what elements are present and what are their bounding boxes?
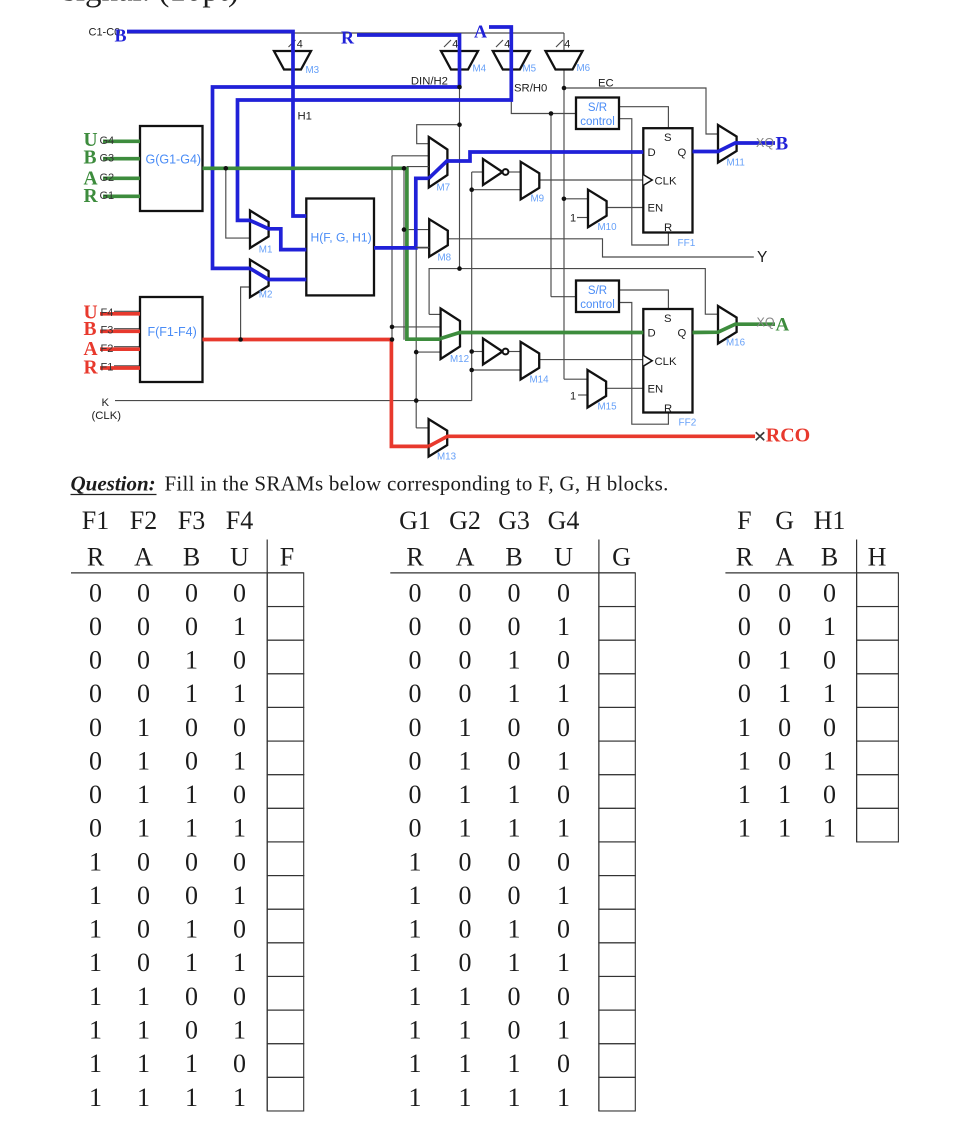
svg-text:0: 0	[233, 847, 246, 876]
svg-text:1: 1	[508, 780, 521, 809]
svg-text:0: 0	[459, 948, 472, 977]
svg-text:1: 1	[137, 1049, 150, 1078]
svg-text:M8: M8	[438, 253, 452, 264]
svg-text:G4: G4	[548, 506, 580, 535]
svg-text:0: 0	[185, 578, 198, 607]
svg-text:F1: F1	[101, 361, 114, 373]
svg-text:0: 0	[409, 679, 422, 708]
svg-text:1: 1	[409, 847, 422, 876]
svg-text:D: D	[648, 147, 656, 159]
svg-text:0: 0	[137, 646, 150, 675]
svg-text:1: 1	[508, 1049, 521, 1078]
svg-text:0: 0	[233, 646, 246, 675]
svg-text:S/R: S/R	[588, 285, 607, 297]
svg-text:XQ: XQ	[756, 136, 774, 150]
svg-text:1: 1	[89, 1015, 102, 1044]
svg-text:Y: Y	[757, 249, 767, 266]
svg-text:R: R	[664, 222, 672, 234]
svg-text:1: 1	[738, 713, 751, 742]
svg-text:1: 1	[185, 780, 198, 809]
svg-text:R: R	[87, 543, 105, 572]
svg-text:1: 1	[137, 746, 150, 775]
svg-text:M13: M13	[437, 452, 457, 463]
svg-text:B: B	[821, 543, 838, 572]
svg-text:M7: M7	[437, 183, 451, 194]
svg-text:1: 1	[185, 814, 198, 843]
svg-text:1: 1	[409, 881, 422, 910]
svg-text:1: 1	[233, 948, 246, 977]
svg-text:F2: F2	[130, 506, 157, 535]
svg-text:FF2: FF2	[679, 418, 697, 429]
svg-text:A: A	[456, 543, 475, 572]
svg-text:0: 0	[89, 713, 102, 742]
svg-text:0: 0	[185, 982, 198, 1011]
svg-text:G(G1-G4): G(G1-G4)	[146, 153, 202, 167]
svg-text:F3: F3	[178, 506, 205, 535]
svg-text:1: 1	[409, 1049, 422, 1078]
svg-text:1: 1	[233, 1015, 246, 1044]
svg-text:0: 0	[137, 948, 150, 977]
svg-text:0: 0	[738, 578, 751, 607]
svg-text:0: 0	[89, 746, 102, 775]
svg-text:G4: G4	[100, 135, 115, 147]
svg-text:4: 4	[452, 39, 458, 51]
svg-text:M5: M5	[523, 64, 537, 75]
svg-text:0: 0	[89, 814, 102, 843]
svg-text:1: 1	[89, 915, 102, 944]
svg-text:0: 0	[459, 915, 472, 944]
svg-text:0: 0	[459, 646, 472, 675]
svg-text:F3: F3	[101, 325, 114, 337]
svg-text:B: B	[84, 319, 97, 340]
svg-text:R: R	[341, 27, 355, 47]
svg-text:0: 0	[137, 612, 150, 641]
svg-text:1: 1	[823, 679, 836, 708]
svg-text:0: 0	[233, 780, 246, 809]
svg-text:S/R: S/R	[588, 102, 607, 114]
svg-text:0: 0	[557, 713, 570, 742]
svg-text:1: 1	[557, 612, 570, 641]
svg-text:CLK: CLK	[655, 356, 677, 368]
svg-text:0: 0	[185, 746, 198, 775]
svg-text:1: 1	[185, 1083, 198, 1112]
svg-text:1: 1	[557, 1083, 570, 1112]
svg-text:0: 0	[233, 982, 246, 1011]
svg-text:H(F, G, H1): H(F, G, H1)	[311, 231, 372, 245]
svg-text:G: G	[612, 543, 631, 572]
svg-text:1: 1	[89, 948, 102, 977]
svg-text:0: 0	[778, 578, 791, 607]
svg-text:Fill in the SRAMs below corres: Fill in the SRAMs below corresponding to…	[165, 471, 669, 495]
svg-text:0: 0	[508, 1015, 521, 1044]
svg-text:0: 0	[738, 646, 751, 675]
svg-text:B: B	[84, 148, 97, 169]
svg-text:F1: F1	[82, 506, 109, 535]
svg-text:Q: Q	[678, 147, 687, 159]
svg-text:S: S	[664, 132, 672, 144]
svg-text:1: 1	[89, 1083, 102, 1112]
svg-text:SR/H0: SR/H0	[514, 83, 547, 95]
svg-text:1: 1	[459, 1049, 472, 1078]
svg-text:EN: EN	[648, 203, 664, 215]
svg-text:1: 1	[778, 679, 791, 708]
svg-text:F: F	[737, 506, 751, 535]
svg-text:4: 4	[564, 39, 570, 51]
svg-text:DIN/H2: DIN/H2	[411, 75, 448, 87]
svg-text:0: 0	[409, 814, 422, 843]
svg-text:1: 1	[508, 1083, 521, 1112]
svg-text:0: 0	[89, 679, 102, 708]
svg-text:0: 0	[409, 713, 422, 742]
svg-text:1: 1	[823, 814, 836, 843]
svg-text:A: A	[134, 543, 153, 572]
svg-text:0: 0	[185, 1015, 198, 1044]
svg-text:0: 0	[409, 612, 422, 641]
svg-text:1: 1	[185, 915, 198, 944]
svg-text:0: 0	[185, 713, 198, 742]
svg-text:1: 1	[233, 612, 246, 641]
svg-text:M6: M6	[577, 63, 591, 74]
svg-text:1: 1	[89, 847, 102, 876]
svg-text:U: U	[230, 543, 249, 572]
svg-text:K: K	[102, 397, 110, 409]
svg-text:1: 1	[738, 814, 751, 843]
svg-text:0: 0	[557, 780, 570, 809]
svg-text:0: 0	[137, 578, 150, 607]
svg-text:0: 0	[508, 612, 521, 641]
svg-text:1: 1	[557, 746, 570, 775]
svg-text:U: U	[554, 543, 573, 572]
svg-text:0: 0	[823, 578, 836, 607]
svg-text:G2: G2	[449, 506, 481, 535]
svg-text:R: R	[406, 543, 424, 572]
svg-text:0: 0	[89, 578, 102, 607]
svg-text:1: 1	[508, 679, 521, 708]
svg-text:1: 1	[137, 982, 150, 1011]
svg-text:M1: M1	[259, 244, 273, 255]
svg-text:1: 1	[233, 1083, 246, 1112]
svg-text:CLK: CLK	[655, 175, 677, 187]
svg-text:B: B	[776, 134, 789, 155]
svg-text:M2: M2	[259, 289, 273, 300]
svg-text:4: 4	[297, 39, 303, 51]
svg-text:1: 1	[508, 646, 521, 675]
svg-text:0: 0	[508, 982, 521, 1011]
svg-text:0: 0	[508, 578, 521, 607]
svg-text:0: 0	[508, 847, 521, 876]
svg-text:1: 1	[738, 780, 751, 809]
svg-text:G1: G1	[100, 190, 115, 202]
svg-text:A: A	[776, 315, 790, 336]
svg-text:0: 0	[738, 679, 751, 708]
svg-text:D: D	[648, 328, 656, 340]
svg-text:1: 1	[137, 780, 150, 809]
svg-text:0: 0	[778, 746, 791, 775]
svg-text:1: 1	[459, 746, 472, 775]
svg-text:1: 1	[738, 746, 751, 775]
svg-text:0: 0	[409, 780, 422, 809]
svg-text:G: G	[775, 506, 794, 535]
svg-text:0: 0	[557, 982, 570, 1011]
svg-text:1: 1	[823, 746, 836, 775]
svg-text:0: 0	[89, 780, 102, 809]
svg-text:0: 0	[778, 612, 791, 641]
svg-text:EN: EN	[648, 384, 664, 396]
svg-text:G3: G3	[498, 506, 530, 535]
svg-text:0: 0	[557, 646, 570, 675]
svg-text:FF1: FF1	[678, 238, 696, 249]
svg-text:A: A	[474, 21, 487, 41]
svg-text:1: 1	[185, 1049, 198, 1078]
svg-text:0: 0	[459, 847, 472, 876]
svg-text:(CLK): (CLK)	[92, 410, 122, 422]
svg-text:0: 0	[409, 578, 422, 607]
svg-text:0: 0	[459, 679, 472, 708]
svg-text:M11: M11	[727, 158, 745, 169]
svg-text:0: 0	[823, 780, 836, 809]
svg-text:Question:: Question:	[71, 471, 156, 495]
svg-text:1: 1	[508, 915, 521, 944]
svg-text:S: S	[664, 313, 672, 325]
svg-text:1: 1	[185, 948, 198, 977]
svg-text:0: 0	[233, 915, 246, 944]
svg-text:R: R	[84, 186, 99, 207]
svg-text:R: R	[736, 543, 754, 572]
svg-text:0: 0	[557, 847, 570, 876]
svg-text:0: 0	[89, 612, 102, 641]
svg-text:signal. (10pt): signal. (10pt)	[63, 0, 239, 9]
svg-text:0: 0	[185, 881, 198, 910]
svg-text:1: 1	[459, 713, 472, 742]
svg-text:1: 1	[233, 679, 246, 708]
svg-text:0: 0	[778, 713, 791, 742]
svg-text:M3: M3	[306, 65, 320, 76]
svg-text:1: 1	[409, 915, 422, 944]
svg-text:1: 1	[557, 814, 570, 843]
svg-text:M4: M4	[473, 64, 487, 75]
svg-text:0: 0	[557, 578, 570, 607]
svg-text:1: 1	[89, 881, 102, 910]
svg-text:0: 0	[738, 612, 751, 641]
svg-text:F2: F2	[101, 343, 114, 355]
svg-text:1: 1	[409, 1015, 422, 1044]
svg-text:RCO: RCO	[766, 425, 810, 447]
svg-text:0: 0	[137, 915, 150, 944]
svg-text:F4: F4	[101, 307, 114, 319]
svg-text:control: control	[580, 299, 615, 311]
svg-text:1: 1	[557, 679, 570, 708]
svg-text:1: 1	[185, 646, 198, 675]
svg-text:A: A	[775, 543, 794, 572]
svg-text:1: 1	[459, 982, 472, 1011]
svg-text:1: 1	[233, 881, 246, 910]
svg-text:control: control	[580, 116, 615, 128]
svg-text:1: 1	[137, 713, 150, 742]
svg-text:1: 1	[459, 814, 472, 843]
svg-text:B: B	[183, 543, 200, 572]
svg-text:1: 1	[778, 646, 791, 675]
svg-text:1: 1	[459, 1015, 472, 1044]
svg-text:XQ: XQ	[757, 316, 775, 330]
svg-text:1: 1	[778, 780, 791, 809]
svg-text:M14: M14	[530, 375, 550, 386]
svg-text:0: 0	[137, 881, 150, 910]
svg-text:H: H	[868, 543, 887, 572]
svg-text:1: 1	[557, 881, 570, 910]
svg-text:0: 0	[233, 578, 246, 607]
svg-text:0: 0	[233, 713, 246, 742]
svg-text:0: 0	[459, 881, 472, 910]
svg-text:0: 0	[557, 915, 570, 944]
svg-text:1: 1	[137, 1015, 150, 1044]
svg-text:G1: G1	[399, 506, 431, 535]
svg-text:1: 1	[409, 948, 422, 977]
svg-text:1: 1	[137, 1083, 150, 1112]
svg-text:1: 1	[409, 982, 422, 1011]
svg-text:0: 0	[185, 847, 198, 876]
svg-text:M12: M12	[450, 354, 469, 365]
svg-text:1: 1	[570, 213, 576, 225]
svg-text:G2: G2	[100, 172, 115, 184]
svg-text:0: 0	[459, 612, 472, 641]
svg-text:0: 0	[508, 713, 521, 742]
svg-text:0: 0	[185, 612, 198, 641]
svg-text:0: 0	[409, 746, 422, 775]
svg-text:1: 1	[459, 780, 472, 809]
svg-text:R: R	[84, 358, 99, 379]
svg-text:H1: H1	[298, 111, 312, 123]
svg-text:1: 1	[233, 746, 246, 775]
svg-text:1: 1	[823, 612, 836, 641]
svg-text:F4: F4	[226, 506, 253, 535]
svg-text:0: 0	[233, 1049, 246, 1078]
svg-text:0: 0	[557, 1049, 570, 1078]
svg-text:0: 0	[137, 847, 150, 876]
svg-text:B: B	[505, 543, 522, 572]
svg-text:1: 1	[185, 679, 198, 708]
svg-text:B: B	[115, 26, 127, 46]
svg-text:1: 1	[89, 1049, 102, 1078]
svg-text:0: 0	[508, 746, 521, 775]
svg-text:F: F	[280, 543, 294, 572]
svg-text:H1: H1	[814, 506, 846, 535]
svg-text:0: 0	[823, 713, 836, 742]
svg-text:0: 0	[459, 578, 472, 607]
svg-text:M9: M9	[531, 194, 545, 205]
svg-text:1: 1	[233, 814, 246, 843]
svg-text:Q: Q	[678, 328, 687, 340]
svg-text:1: 1	[137, 814, 150, 843]
svg-text:EC: EC	[598, 78, 614, 90]
svg-text:0: 0	[137, 679, 150, 708]
svg-text:0: 0	[823, 646, 836, 675]
svg-text:1: 1	[557, 948, 570, 977]
svg-text:F(F1-F4): F(F1-F4)	[148, 325, 197, 339]
svg-text:0: 0	[409, 646, 422, 675]
svg-text:M16: M16	[726, 338, 746, 349]
svg-text:1: 1	[508, 948, 521, 977]
svg-text:1: 1	[508, 814, 521, 843]
svg-text:0: 0	[508, 881, 521, 910]
svg-text:4: 4	[504, 39, 510, 51]
svg-text:1: 1	[778, 814, 791, 843]
svg-text:M10: M10	[598, 222, 618, 233]
svg-text:1: 1	[557, 1015, 570, 1044]
svg-text:M15: M15	[598, 402, 618, 413]
svg-text:1: 1	[409, 1083, 422, 1112]
svg-text:G3: G3	[100, 153, 115, 165]
svg-text:R: R	[664, 403, 672, 415]
svg-text:0: 0	[89, 646, 102, 675]
svg-text:1: 1	[459, 1083, 472, 1112]
svg-text:1: 1	[89, 982, 102, 1011]
svg-text:1: 1	[570, 391, 576, 403]
